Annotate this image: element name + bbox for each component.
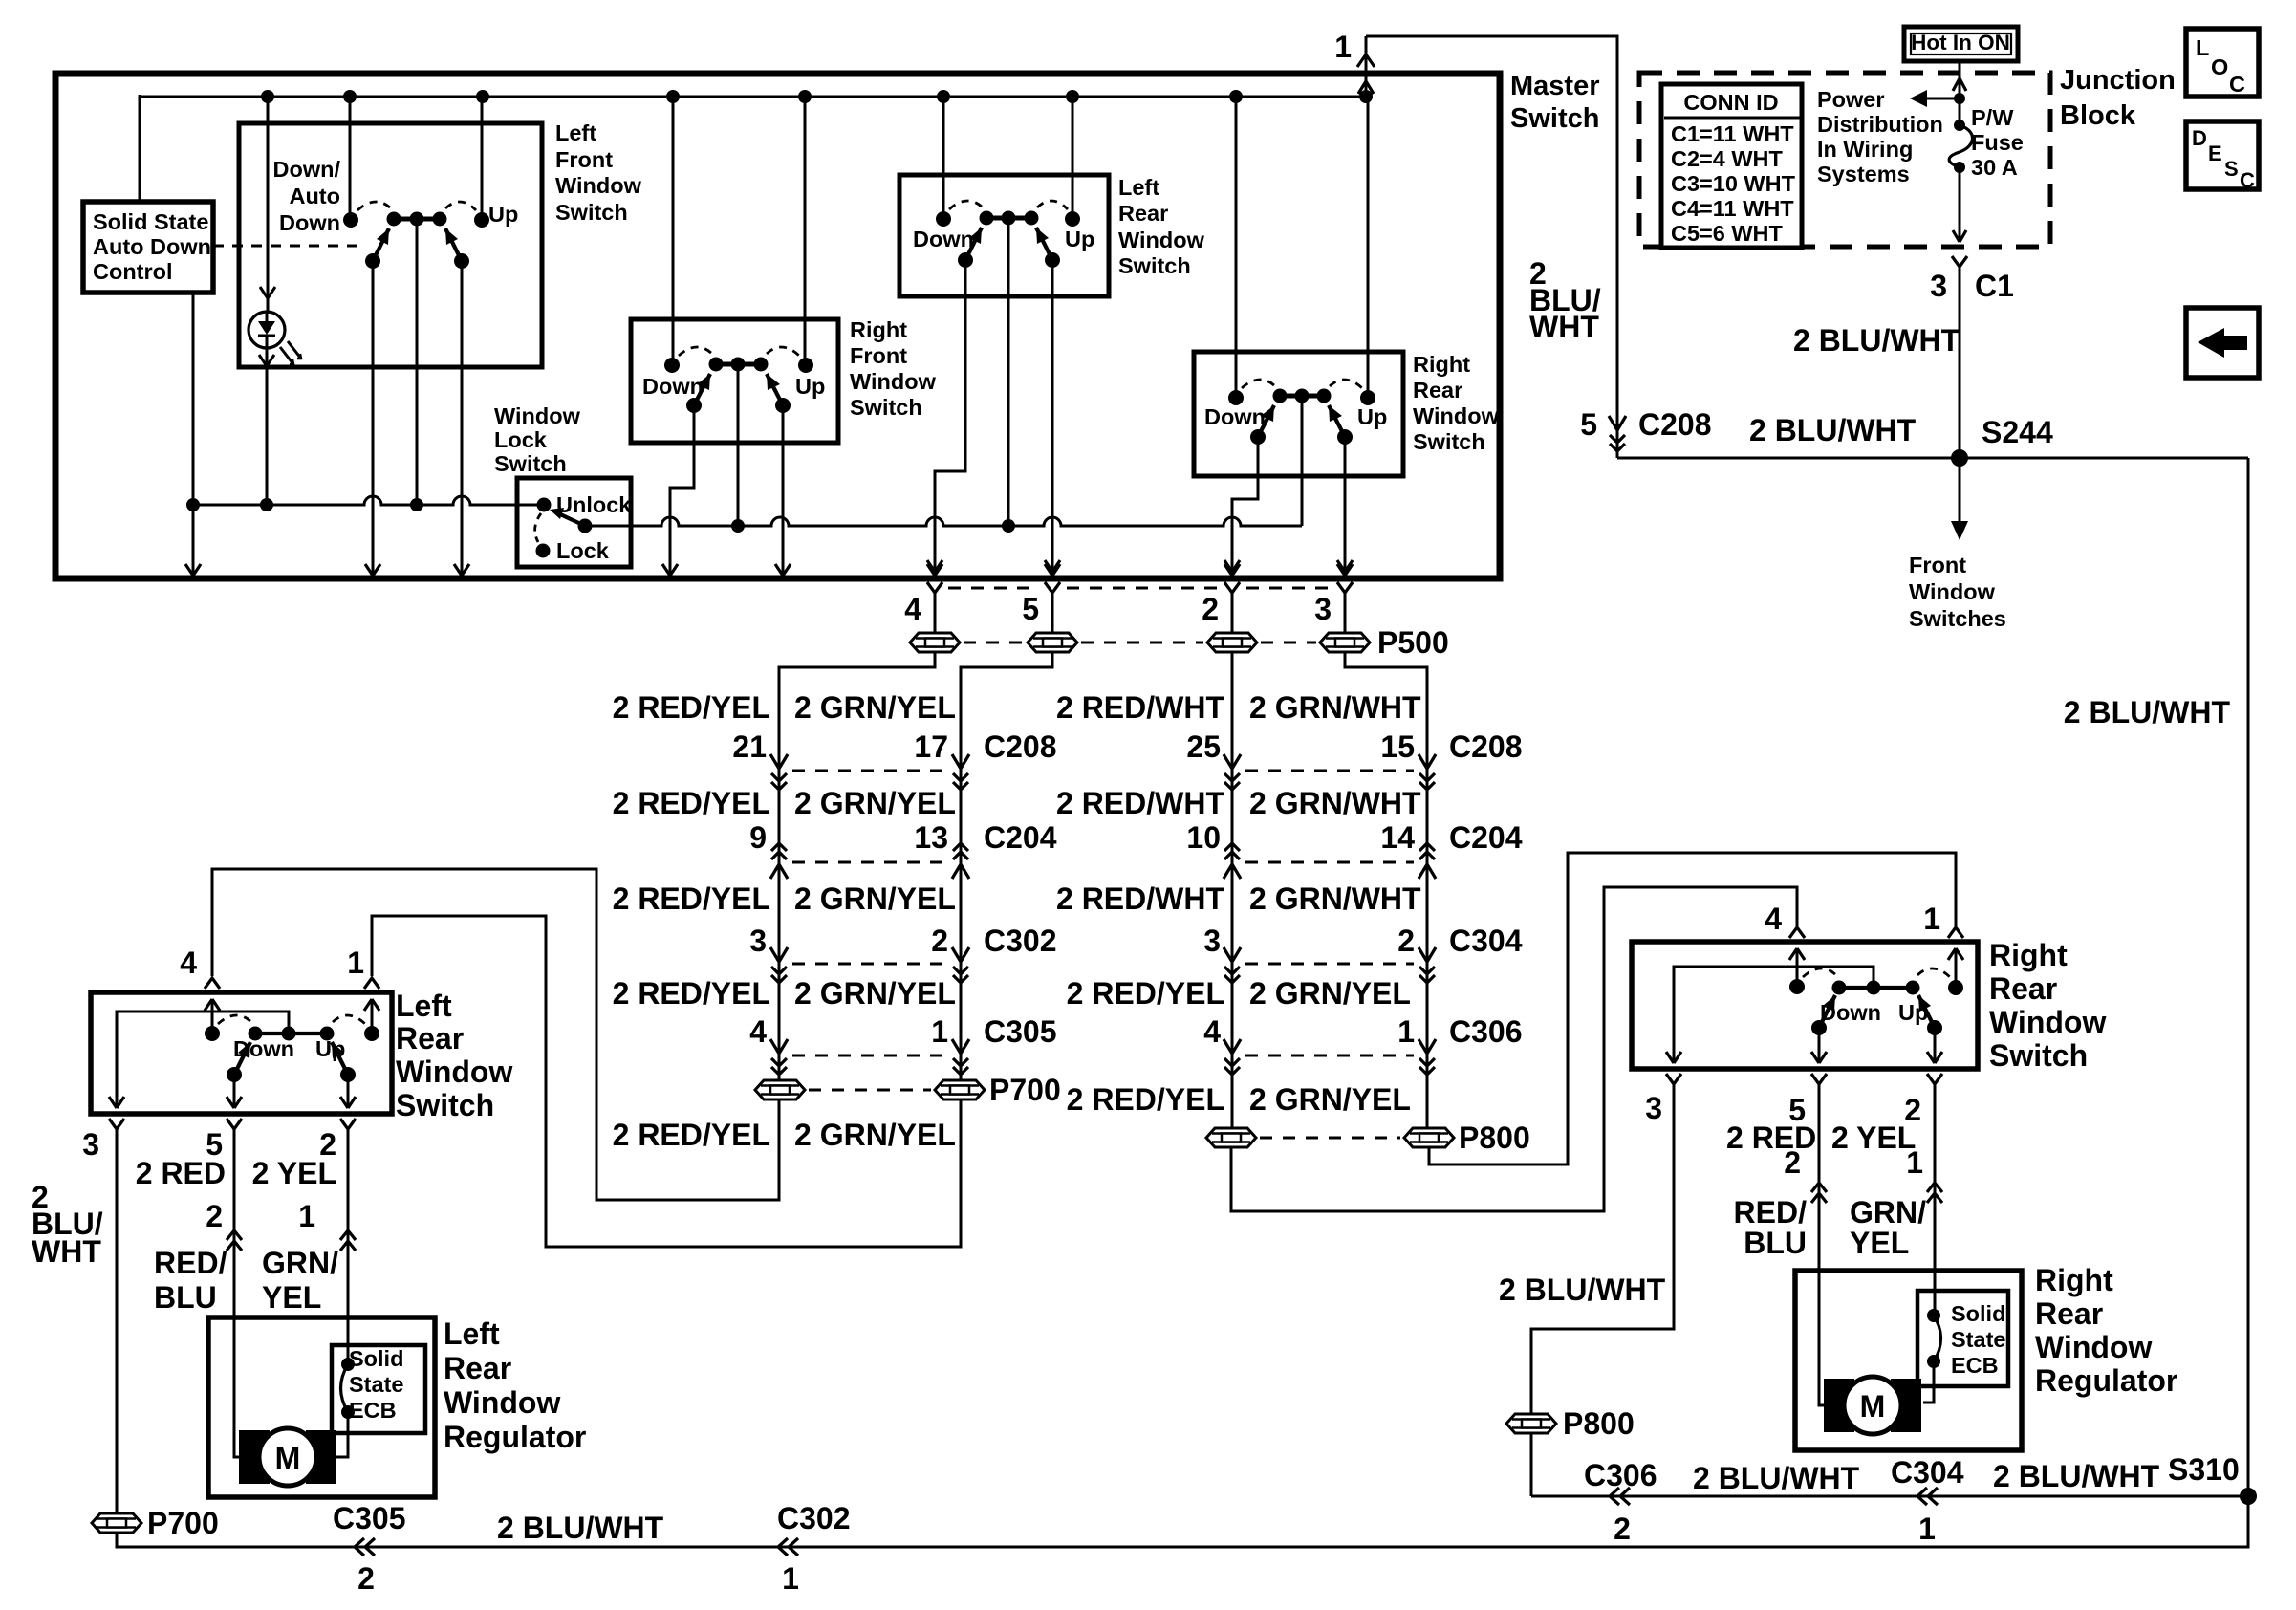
svg-text:4: 4 — [749, 1014, 767, 1049]
grommet P500 pin4 — [910, 633, 960, 652]
svg-text:3: 3 — [749, 924, 767, 958]
svg-text:Regulator: Regulator — [2035, 1363, 2177, 1398]
svg-text:Systems: Systems — [1817, 162, 1910, 186]
svg-text:Down/: Down/ — [273, 157, 341, 182]
svg-text:1: 1 — [347, 946, 364, 980]
svg-text:Window: Window — [850, 369, 937, 394]
svg-text:Switch: Switch — [1413, 429, 1485, 454]
wire: supply bus inside master switch — [140, 96, 1366, 98]
LRW door switch contacts — [211, 999, 214, 1033]
svg-text:2 RED/WHT: 2 RED/WHT — [1056, 881, 1224, 916]
svg-text:ECB: ECB — [349, 1398, 397, 1423]
svg-text:Down: Down — [642, 374, 704, 399]
wire: pin2 down — [347, 1129, 350, 1317]
svg-text:Up: Up — [488, 202, 518, 227]
svg-text:2 BLU/WHT: 2 BLU/WHT — [1793, 323, 1960, 358]
svg-text:2: 2 — [1397, 924, 1415, 958]
svg-text:YEL: YEL — [262, 1280, 321, 1315]
svg-text:2 BLU/WHT: 2 BLU/WHT — [1993, 1459, 2160, 1493]
svg-text:21: 21 — [732, 729, 767, 764]
svg-text:Window: Window — [555, 173, 642, 198]
svg-text:C302: C302 — [984, 924, 1057, 958]
svg-text:5: 5 — [1022, 592, 1039, 626]
svg-text:Left: Left — [444, 1316, 500, 1351]
svg-text:C305: C305 — [984, 1014, 1057, 1049]
LRW door common — [117, 1012, 289, 1107]
svg-text:30 A: 30 A — [1971, 155, 2018, 180]
svg-text:1: 1 — [1923, 902, 1940, 936]
connector C306 on upper run — [1610, 1488, 1630, 1505]
svg-text:RED/: RED/ — [154, 1246, 227, 1280]
LED indicator in LFW switch — [267, 97, 270, 312]
RRW master arms — [1258, 405, 1274, 437]
wire: RRW pin2 down — [1934, 1084, 1937, 1271]
svg-text:2 RED/YEL: 2 RED/YEL — [613, 690, 770, 725]
svg-text:2: 2 — [1614, 1512, 1631, 1546]
svg-text:2 GRN/WHT: 2 GRN/WHT — [1249, 690, 1421, 725]
svg-text:P800: P800 — [1563, 1406, 1635, 1441]
left rear window switch (door) — [205, 978, 220, 1011]
svg-text:2 RED/YEL: 2 RED/YEL — [1067, 976, 1224, 1011]
svg-text:Lock: Lock — [494, 427, 548, 452]
connector C304 on upper run — [1917, 1488, 1938, 1505]
svg-text:Window: Window — [1909, 579, 1996, 604]
svg-text:P800: P800 — [1459, 1120, 1530, 1155]
svg-text:RED/: RED/ — [1734, 1195, 1808, 1229]
svg-text:Window: Window — [2035, 1330, 2152, 1364]
LFW center wire to unlock line — [416, 219, 419, 505]
svg-text:State: State — [349, 1372, 403, 1397]
svg-text:2 GRN/YEL: 2 GRN/YEL — [794, 786, 956, 820]
svg-text:2 BLU/WHT: 2 BLU/WHT — [1499, 1273, 1666, 1307]
svg-text:Right: Right — [2035, 1263, 2113, 1297]
svg-text:2 GRN/YEL: 2 GRN/YEL — [1249, 976, 1411, 1011]
hot in on box — [1904, 27, 2018, 61]
node: bus junctions — [261, 90, 1373, 103]
junction block dashed box — [1639, 73, 2050, 247]
svg-text:2 RED/YEL: 2 RED/YEL — [613, 786, 770, 820]
back arrow box — [2186, 308, 2259, 378]
svg-text:9: 9 — [749, 820, 767, 855]
svg-text:Window: Window — [494, 403, 581, 428]
svg-text:C1=11 WHT: C1=11 WHT — [1671, 121, 1794, 146]
svg-text:1: 1 — [782, 1561, 799, 1596]
svg-text:Solid State: Solid State — [93, 209, 208, 234]
connector C1 pin 3 — [1952, 256, 1967, 267]
svg-text:CONN ID: CONN ID — [1683, 90, 1778, 115]
svg-text:2 BLU/WHT: 2 BLU/WHT — [497, 1511, 664, 1545]
svg-text:10: 10 — [1186, 820, 1221, 855]
solid state auto down control box — [83, 202, 213, 293]
connector C302 on bottom run — [778, 1538, 798, 1556]
grommet P500 pin3 — [1320, 633, 1370, 652]
svg-text:1: 1 — [1918, 1512, 1936, 1546]
svg-text:S310: S310 — [2168, 1452, 2240, 1487]
wire: column B to left rear switch pin 1 — [372, 916, 961, 1247]
P/W fuse 30A — [1959, 61, 1961, 125]
svg-text:2 GRN/YEL: 2 GRN/YEL — [794, 976, 956, 1011]
left rear window regulator box — [208, 1317, 435, 1497]
svg-text:1: 1 — [931, 1014, 948, 1049]
svg-text:C302: C302 — [777, 1501, 851, 1535]
svg-text:15: 15 — [1380, 729, 1415, 764]
RRW master arm wires — [1232, 437, 1258, 575]
svg-text:Up: Up — [1065, 227, 1094, 251]
RFW center wire — [737, 364, 740, 526]
LRW door arms — [234, 1042, 250, 1075]
svg-text:2 YEL: 2 YEL — [252, 1156, 336, 1190]
connector C302 / C304 crossings — [770, 947, 788, 983]
RFW arms — [694, 374, 710, 405]
svg-text:2: 2 — [931, 924, 948, 958]
svg-text:2 BLU/WHT: 2 BLU/WHT — [1749, 413, 1917, 447]
svg-text:2 GRN/WHT: 2 GRN/WHT — [1249, 786, 1421, 820]
svg-text:YEL: YEL — [1850, 1226, 1909, 1260]
LRW door bottom pins — [109, 1119, 124, 1129]
pin 1 of master switch (feed) — [1365, 36, 1368, 97]
svg-text:C204: C204 — [984, 820, 1057, 855]
svg-text:Switch: Switch — [850, 395, 922, 420]
RRW master contacts — [1235, 97, 1238, 398]
svg-text:Rear: Rear — [1118, 201, 1168, 226]
svg-text:E: E — [2208, 141, 2222, 165]
left front window switch box — [239, 123, 542, 367]
svg-text:Front: Front — [1909, 553, 1966, 577]
DESC reference box — [2186, 121, 2259, 189]
svg-text:2: 2 — [206, 1199, 223, 1233]
svg-text:Up: Up — [1898, 1000, 1928, 1025]
svg-text:Switch: Switch — [396, 1088, 494, 1122]
right rear window switch box (master) — [1194, 352, 1403, 476]
svg-text:4: 4 — [1765, 902, 1782, 936]
svg-text:1: 1 — [1334, 30, 1352, 64]
LRW master arm wires — [935, 260, 965, 575]
svg-text:Block: Block — [2060, 100, 2136, 131]
grommet P800 left — [1206, 1128, 1256, 1147]
wire: RRW pin5 down — [1818, 1084, 1821, 1271]
svg-text:P700: P700 — [989, 1073, 1061, 1107]
svg-text:Left: Left — [555, 120, 596, 145]
wire: P500 pin4 to column A — [779, 653, 935, 1079]
svg-text:C304: C304 — [1449, 924, 1523, 958]
RFW contacts — [672, 97, 675, 365]
svg-text:2 RED: 2 RED — [1726, 1120, 1816, 1155]
connector C204 crossings — [770, 843, 788, 879]
svg-text:C306: C306 — [1584, 1458, 1657, 1492]
grommet P800 right — [1404, 1128, 1454, 1147]
svg-text:C2=4 WHT: C2=4 WHT — [1671, 146, 1784, 171]
svg-text:Rear: Rear — [1989, 971, 2057, 1006]
svg-text:C306: C306 — [1449, 1014, 1523, 1049]
solid state ECB right — [1917, 1291, 2008, 1386]
wire: control output down — [192, 293, 195, 575]
LOC reference box — [2186, 29, 2259, 97]
svg-text:Right: Right — [850, 317, 907, 342]
svg-text:1: 1 — [298, 1199, 315, 1233]
svg-text:Switch: Switch — [494, 451, 567, 476]
svg-text:Left: Left — [396, 989, 452, 1023]
svg-text:2 RED: 2 RED — [136, 1156, 226, 1190]
svg-text:BLU: BLU — [1744, 1226, 1807, 1260]
grommet P500 pin5 — [1028, 633, 1077, 652]
svg-text:WHT: WHT — [1529, 310, 1599, 344]
svg-text:Window: Window — [396, 1055, 512, 1089]
svg-text:4: 4 — [1203, 1014, 1221, 1049]
svg-text:Switches: Switches — [1909, 606, 2006, 631]
CONN ID table — [1661, 84, 1802, 248]
svg-text:Junction: Junction — [2060, 65, 2176, 96]
svg-text:C1: C1 — [1975, 269, 2014, 303]
node S244 — [1951, 449, 1968, 467]
wire: bottom 2 BLU/WHT run — [117, 1496, 2248, 1547]
wire: RRW pin3 to P800 — [1531, 1084, 1674, 1413]
svg-text:State: State — [1951, 1327, 2005, 1352]
svg-text:2 GRN/YEL: 2 GRN/YEL — [794, 690, 956, 725]
grommet P500 pin2 — [1207, 633, 1257, 652]
svg-text:Lock: Lock — [556, 538, 610, 563]
svg-text:C204: C204 — [1449, 820, 1523, 855]
svg-text:2 RED/YEL: 2 RED/YEL — [613, 1118, 770, 1152]
wire: unlock line — [193, 496, 544, 505]
svg-text:2 GRN/WHT: 2 GRN/WHT — [1249, 881, 1421, 916]
svg-text:Down: Down — [279, 210, 340, 235]
svg-text:P500: P500 — [1377, 625, 1449, 660]
LRW master center wire — [1007, 218, 1010, 526]
svg-text:3: 3 — [82, 1127, 99, 1162]
svg-text:Right: Right — [1989, 938, 2068, 972]
svg-text:Solid: Solid — [1951, 1301, 2005, 1326]
svg-text:Master: Master — [1510, 71, 1600, 101]
wire: P800 left to right rear switch pin 4 — [1231, 887, 1797, 1211]
wire: column A to left rear switch pin 4 — [212, 869, 779, 1200]
svg-text:Front: Front — [555, 147, 613, 172]
svg-text:2: 2 — [1202, 592, 1219, 626]
arrow to power distribution — [1916, 98, 1960, 100]
svg-text:C208: C208 — [984, 729, 1057, 764]
svg-text:3: 3 — [1314, 592, 1332, 626]
svg-text:17: 17 — [914, 729, 948, 764]
svg-text:Rear: Rear — [396, 1021, 464, 1055]
P500 pins below master switch — [927, 560, 942, 593]
svg-text:C208: C208 — [1638, 407, 1712, 442]
grommet P700 door — [92, 1513, 141, 1533]
svg-text:D: D — [2192, 126, 2207, 150]
connector C305 / C306 crossings — [770, 1039, 788, 1075]
arrow to front window switches — [1959, 458, 1961, 523]
svg-text:4: 4 — [180, 946, 197, 980]
svg-text:Auto Down: Auto Down — [93, 234, 211, 259]
RRW master center wire — [1301, 396, 1304, 526]
svg-text:O: O — [2211, 54, 2228, 79]
wire: P500 pin2 column C — [1231, 653, 1234, 1127]
svg-text:Regulator: Regulator — [444, 1420, 586, 1454]
svg-text:2 GRN/YEL: 2 GRN/YEL — [794, 1118, 956, 1152]
svg-text:3: 3 — [1930, 269, 1947, 303]
svg-text:Power: Power — [1817, 87, 1885, 112]
svg-text:Up: Up — [795, 374, 825, 399]
svg-text:M: M — [275, 1441, 301, 1475]
svg-text:C305: C305 — [333, 1501, 406, 1535]
dashed connector group line P500 — [948, 587, 1038, 590]
svg-text:Window: Window — [1989, 1005, 2106, 1039]
svg-text:5: 5 — [1580, 407, 1597, 442]
svg-text:C304: C304 — [1891, 1455, 1964, 1490]
svg-text:3: 3 — [1203, 924, 1221, 958]
svg-text:Switch: Switch — [1989, 1038, 2088, 1073]
master switch box — [55, 74, 1500, 578]
RRW door common — [1674, 967, 1874, 1062]
svg-text:2 BLU/WHT: 2 BLU/WHT — [1693, 1461, 1860, 1495]
svg-text:2: 2 — [357, 1561, 375, 1596]
connector C208 crossings — [770, 754, 788, 790]
svg-text:BLU: BLU — [154, 1280, 217, 1315]
svg-text:GRN/: GRN/ — [1850, 1195, 1926, 1229]
svg-text:Solid: Solid — [349, 1346, 403, 1371]
grommet P800 door — [1506, 1414, 1556, 1433]
svg-text:S244: S244 — [1982, 415, 2053, 449]
wire: right feed down to S310 — [2247, 458, 2250, 1496]
svg-text:Window: Window — [444, 1385, 560, 1420]
svg-text:Switch: Switch — [555, 200, 628, 225]
svg-text:P700: P700 — [147, 1506, 219, 1540]
svg-text:Front: Front — [850, 343, 907, 368]
svg-text:2 GRN/YEL: 2 GRN/YEL — [1249, 1082, 1411, 1117]
svg-text:25: 25 — [1186, 729, 1221, 764]
svg-text:In Wiring: In Wiring — [1817, 137, 1913, 162]
svg-text:3: 3 — [1645, 1091, 1662, 1125]
grommet P700 left — [755, 1080, 805, 1099]
svg-text:Auto: Auto — [289, 184, 340, 208]
svg-text:2 RED/WHT: 2 RED/WHT — [1056, 786, 1224, 820]
wire: P800 right to right rear switch pin 1 — [1429, 853, 1956, 1164]
svg-text:C4=11 WHT: C4=11 WHT — [1671, 196, 1794, 221]
svg-text:Control: Control — [93, 259, 173, 284]
svg-text:13: 13 — [914, 820, 948, 855]
wire: fuse output down to S244 — [1959, 267, 1961, 521]
svg-text:L: L — [2196, 35, 2209, 60]
svg-text:2 RED/YEL: 2 RED/YEL — [1067, 1082, 1224, 1117]
RRW door bottom pins — [1666, 1074, 1681, 1084]
svg-text:Down: Down — [1204, 404, 1266, 429]
motor left regulator — [239, 1430, 270, 1484]
LFW arm wires to box bottom — [372, 261, 375, 575]
svg-text:2 GRN/YEL: 2 GRN/YEL — [794, 881, 956, 916]
svg-text:1: 1 — [1397, 1014, 1415, 1049]
LRW master arms — [965, 228, 982, 260]
svg-text:ECB: ECB — [1951, 1353, 1999, 1378]
RFW arm wires — [670, 405, 694, 575]
svg-text:14: 14 — [1380, 820, 1415, 855]
connector C305 on bottom run — [355, 1538, 375, 1556]
connector C305 pin1 crossing — [340, 1230, 356, 1251]
svg-text:C: C — [2240, 168, 2255, 192]
wire: lock common bus — [585, 517, 1302, 526]
svg-text:Unlock: Unlock — [556, 492, 632, 517]
svg-text:P/W: P/W — [1971, 105, 2014, 130]
svg-text:S: S — [2224, 157, 2239, 181]
svg-text:2 RED/YEL: 2 RED/YEL — [613, 976, 770, 1011]
svg-text:Up: Up — [1357, 404, 1387, 429]
svg-text:4: 4 — [904, 592, 921, 626]
solid state ECB left — [332, 1345, 425, 1433]
wire: P500 pin3 to column D — [1345, 653, 1427, 1127]
svg-text:2 YEL: 2 YEL — [1831, 1120, 1916, 1155]
svg-text:Down: Down — [233, 1036, 294, 1061]
svg-text:C5=6 WHT: C5=6 WHT — [1671, 221, 1784, 246]
wire: upper bottom 2 BLU/WHT run to S310 — [1531, 1495, 2248, 1498]
svg-text:C3=10 WHT: C3=10 WHT — [1671, 171, 1796, 196]
LRW master contacts — [942, 97, 945, 219]
svg-text:Rear: Rear — [2035, 1296, 2103, 1331]
svg-text:Distribution: Distribution — [1817, 112, 1943, 137]
motor right regulator — [1824, 1379, 1854, 1432]
svg-text:Up: Up — [315, 1036, 345, 1061]
wire: bus drop to auto down control — [139, 95, 141, 202]
left rear window switch box (master) — [899, 175, 1109, 296]
connector C305 pin2 crossing — [227, 1230, 242, 1251]
svg-text:Window: Window — [1413, 403, 1500, 428]
grommet P700 right — [935, 1080, 985, 1099]
svg-text:Rear: Rear — [1413, 378, 1462, 402]
svg-text:Right: Right — [1413, 352, 1470, 377]
wire: S244 run — [1617, 457, 2248, 460]
svg-text:2 RED/WHT: 2 RED/WHT — [1056, 690, 1224, 725]
right rear window switch (door) — [1789, 927, 1805, 960]
svg-text:1: 1 — [1906, 1145, 1923, 1180]
svg-text:M: M — [1860, 1389, 1886, 1424]
connector C304 pin1 crossing — [1927, 1183, 1942, 1203]
wire: P500 pin5 to column B — [961, 653, 1052, 1079]
svg-text:Down: Down — [913, 227, 974, 251]
RRW door contacts — [1796, 948, 1799, 987]
master switch C208 pin 5 exit — [1609, 416, 1626, 451]
RRW door arms — [1819, 995, 1835, 1028]
LFW switch contacts — [349, 97, 352, 220]
svg-text:Window: Window — [1118, 228, 1205, 252]
svg-text:WHT: WHT — [32, 1234, 101, 1269]
svg-text:2 BLU/WHT: 2 BLU/WHT — [2064, 695, 2231, 729]
svg-text:Hot In ON: Hot In ON — [1911, 31, 2010, 54]
svg-text:C208: C208 — [1449, 729, 1523, 764]
svg-text:Down: Down — [1820, 1000, 1881, 1025]
right rear window regulator box — [1795, 1271, 2022, 1450]
svg-text:Fuse: Fuse — [1971, 130, 2024, 155]
svg-text:C: C — [2229, 72, 2245, 97]
wire: pin3 to P700 — [116, 1129, 119, 1512]
svg-text:Switch: Switch — [1510, 103, 1599, 134]
dashed control link — [213, 245, 366, 248]
svg-text:2: 2 — [1784, 1145, 1801, 1180]
svg-text:Switch: Switch — [1118, 253, 1191, 278]
right front window switch box — [631, 319, 838, 443]
svg-text:2 RED/YEL: 2 RED/YEL — [613, 881, 770, 916]
wire: LED to unlock line — [266, 348, 269, 505]
wire: master pin1 to junction block feed — [1366, 36, 1617, 458]
wire: pin5 down — [233, 1129, 236, 1317]
svg-text:GRN/: GRN/ — [262, 1246, 338, 1280]
svg-text:Left: Left — [1118, 175, 1159, 200]
LFW moving arms — [373, 228, 389, 261]
svg-text:Rear: Rear — [444, 1351, 511, 1385]
connector C304 pin2 crossing — [1811, 1183, 1827, 1203]
